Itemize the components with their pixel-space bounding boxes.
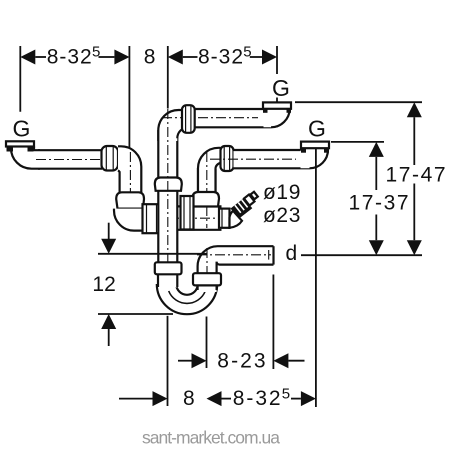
dim 8 bottom bbox=[119, 387, 195, 410]
dim line 8-32(5) top-left bbox=[20, 44, 129, 69]
barbed hose connector bbox=[231, 192, 258, 219]
dim 17-47 bbox=[386, 102, 446, 255]
right-G flange bbox=[301, 142, 329, 149]
outlet arm centerline bbox=[206, 248, 208, 290]
outlet arm and pipe d elbow bbox=[198, 246, 274, 273]
runner left nut bbox=[143, 204, 161, 233]
svg-text:G: G bbox=[308, 116, 326, 142]
dim 12 upper reference line (over pipes) bbox=[98, 253, 207, 255]
left branch centerline bbox=[129, 152, 131, 206]
runner centerline bbox=[146, 217, 232, 219]
left-G inlet bend bbox=[11, 147, 40, 169]
svg-text:G: G bbox=[272, 75, 290, 101]
riser coupling bbox=[155, 178, 182, 191]
extension line outlet arm (x=206.5) bbox=[206, 317, 208, 369]
extension line top-G upper seg (x=277) bbox=[276, 46, 278, 74]
svg-text:8: 8 bbox=[183, 387, 195, 410]
left-G flange bbox=[6, 141, 34, 146]
extension line top-G lower seg bbox=[276, 98, 278, 103]
left branch elbow down bbox=[118, 146, 141, 193]
union nut top-G bbox=[182, 105, 195, 133]
top-G centerline bbox=[162, 117, 258, 119]
bell socket left branch bbox=[116, 192, 144, 208]
barb elbow bbox=[230, 211, 243, 228]
svg-text:5: 5 bbox=[282, 385, 290, 402]
reference line right-G (17-37 top, y=142) bbox=[331, 141, 384, 143]
svg-text:sant-market.com.ua: sant-market.com.ua bbox=[142, 428, 280, 448]
union nut left-G bbox=[102, 146, 119, 171]
svg-text:ø23: ø23 bbox=[263, 204, 301, 227]
dim 8-23 bbox=[178, 350, 305, 373]
trap outlet stub bbox=[198, 283, 217, 292]
trap inlet nut bbox=[155, 262, 182, 274]
svg-text:d: d bbox=[286, 242, 298, 265]
svg-text:ø19: ø19 bbox=[263, 181, 301, 204]
left-G pipe centerline bbox=[36, 159, 116, 161]
dim 12 lower arrow bbox=[101, 314, 116, 346]
svg-text:8-32: 8-32 bbox=[233, 387, 281, 410]
extension line left branch (x=129.4) bbox=[128, 46, 130, 149]
svg-text:8-32: 8-32 bbox=[47, 45, 92, 68]
svg-text:17-47: 17-47 bbox=[386, 164, 446, 187]
right branch pipe bbox=[198, 168, 216, 193]
trap middle arc bbox=[169, 291, 206, 303]
svg-text:G: G bbox=[13, 115, 31, 141]
reference line d (y=255) bbox=[301, 254, 422, 256]
right-G centerline bbox=[210, 158, 296, 160]
runner (cross piece) bbox=[158, 206, 222, 229]
svg-text:8: 8 bbox=[144, 45, 156, 68]
extension line left-G top (x=20) bbox=[19, 46, 21, 112]
right branch centerline bbox=[206, 152, 208, 228]
svg-text:5: 5 bbox=[243, 44, 251, 61]
svg-text:12: 12 bbox=[92, 273, 115, 296]
right-G pipe bbox=[234, 150, 302, 168]
dim line 8-32(5) top-right bbox=[168, 44, 277, 69]
extension line riser bottom (x=167.5) bbox=[167, 316, 169, 406]
riser top elbow bbox=[158, 110, 190, 141]
trap inlet stub bbox=[158, 274, 177, 287]
union nut right-G bbox=[221, 146, 234, 171]
right-G elbow bbox=[198, 148, 221, 193]
dim 12 upper arrow bbox=[101, 223, 116, 254]
pipe d centerline bbox=[197, 254, 271, 256]
left-G pipe bbox=[38, 150, 102, 169]
svg-text:17-37: 17-37 bbox=[349, 192, 409, 215]
reference line top (17-47 top, y=102) bbox=[295, 101, 422, 103]
trap outlet nut bbox=[193, 273, 221, 285]
riser pipe bbox=[158, 128, 177, 263]
trap U-bend bbox=[157, 284, 217, 314]
top-G bend up to flange bbox=[264, 109, 291, 128]
svg-text:5: 5 bbox=[92, 44, 100, 61]
top-G pipe bbox=[188, 109, 264, 127]
top-G flange bbox=[263, 102, 291, 108]
extension line riser (x=167.8) bbox=[167, 46, 169, 109]
bell socket right branch bbox=[193, 192, 220, 207]
dim 8-32(5) bottom bbox=[207, 385, 316, 410]
dim 12 lower line bbox=[98, 313, 173, 315]
dim 8 top bbox=[144, 45, 156, 68]
extension line pipe-d end (x=273.4) bbox=[272, 275, 274, 370]
bottom-left elbow to runner bbox=[114, 206, 160, 230]
riser centerline bbox=[167, 109, 169, 268]
extension line right-G down (x=315.9) bbox=[315, 149, 317, 408]
right-G bend up to flange bbox=[301, 149, 329, 169]
svg-text:8-32: 8-32 bbox=[198, 45, 243, 68]
svg-text:8-23: 8-23 bbox=[217, 350, 265, 373]
reducer bbox=[219, 209, 230, 228]
nut between riser and tee bbox=[181, 196, 194, 230]
dim 17-37 bbox=[349, 142, 409, 255]
